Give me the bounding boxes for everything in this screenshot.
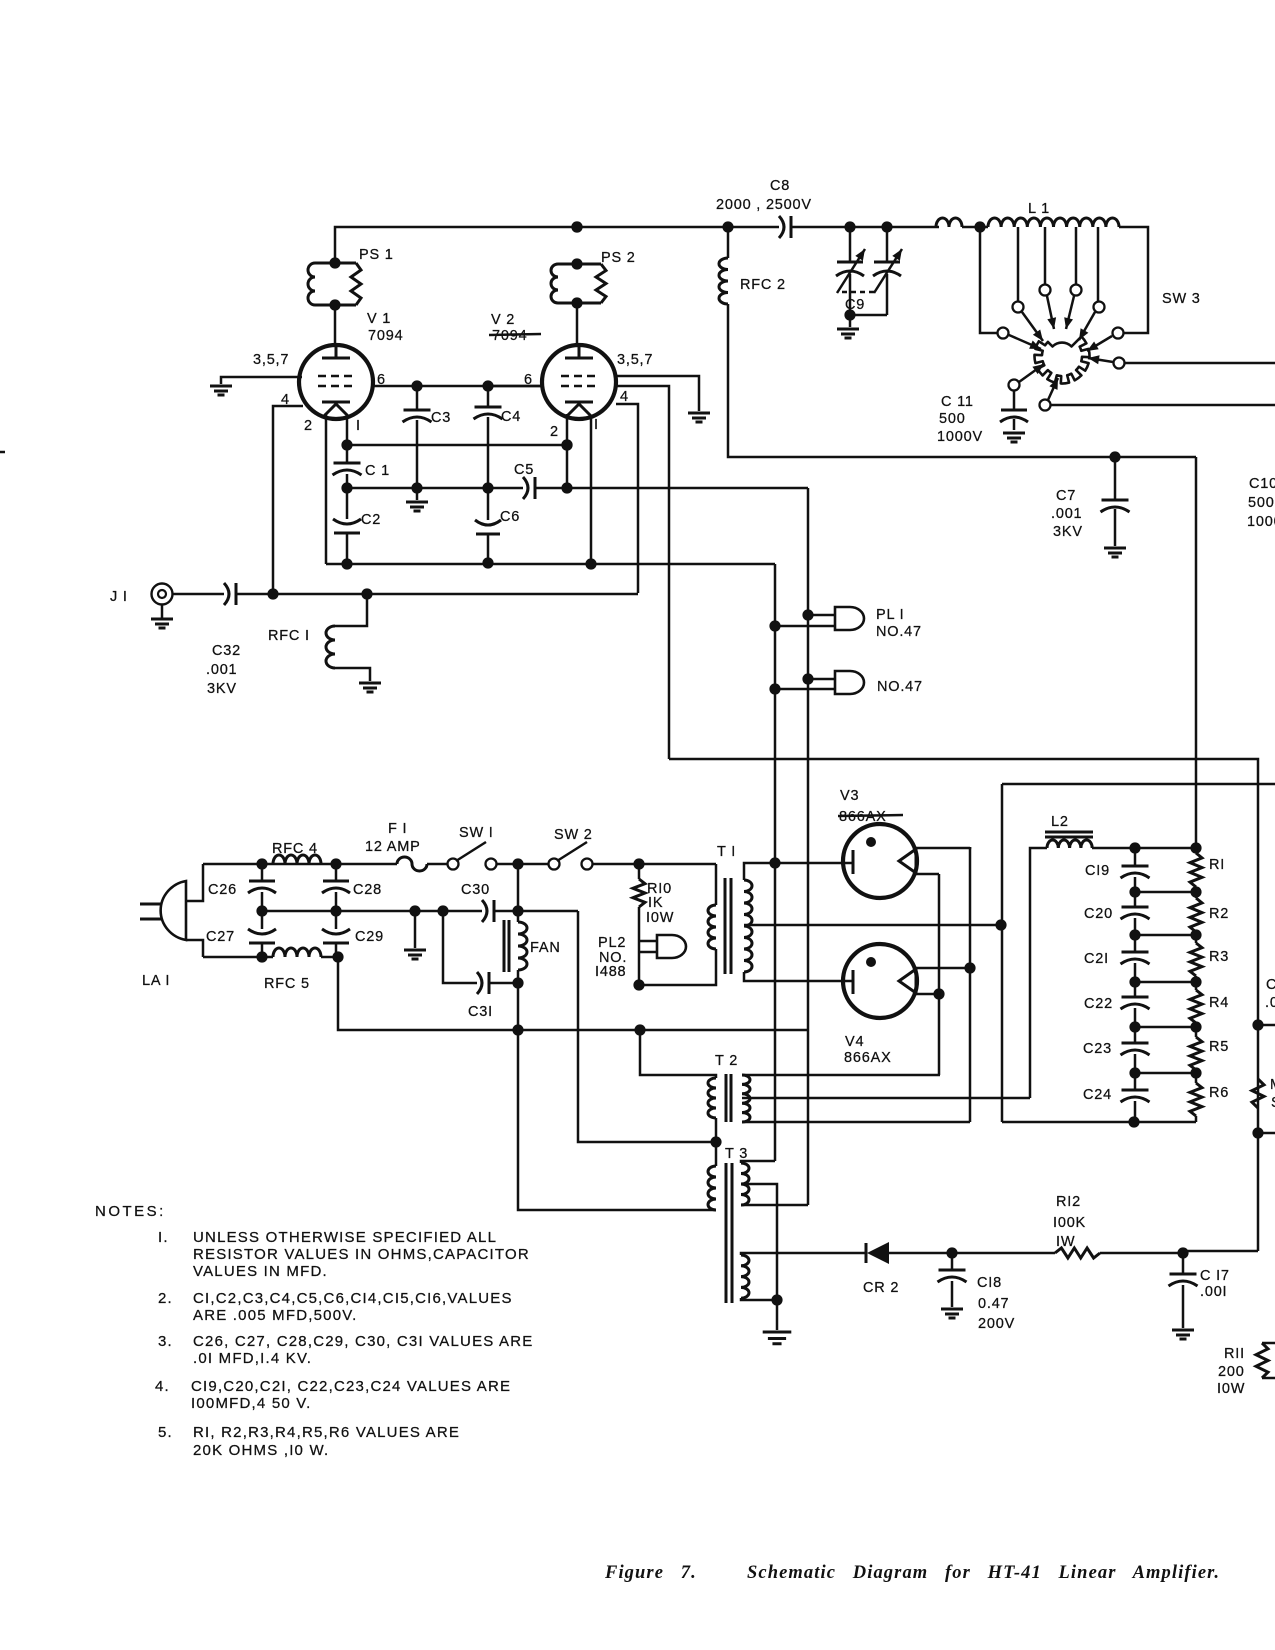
svg-text:3,5,7: 3,5,7 bbox=[253, 352, 289, 368]
svg-text:200: 200 bbox=[1218, 1364, 1245, 1380]
svg-text:I0W: I0W bbox=[1217, 1381, 1245, 1397]
wire filter rail top bbox=[1092, 847, 1196, 850]
wire V1 grid 3,5,7 to ground bbox=[221, 377, 302, 384]
wire V2 grid 3,5,7 to ground bbox=[616, 376, 699, 411]
tube V1 7094 bbox=[299, 345, 373, 419]
svg-text:C: C bbox=[1266, 977, 1275, 993]
svg-text:F I: F I bbox=[388, 821, 407, 837]
svg-text:4: 4 bbox=[620, 389, 629, 405]
resistor R10 bbox=[638, 864, 641, 985]
choke RFC1 bbox=[335, 594, 367, 626]
capacitor C32 bbox=[224, 583, 229, 605]
capacitor CI9 bbox=[1134, 848, 1137, 892]
svg-text:M: M bbox=[1270, 1077, 1275, 1093]
wire T1 secondary bottom to V4 filament bbox=[744, 972, 852, 981]
svg-text:UNLESS OTHERWISE SPECIFIED ALL: UNLESS OTHERWISE SPECIFIED ALL bbox=[193, 1229, 497, 1246]
wire CR2 to R12 line bbox=[889, 1252, 1183, 1255]
transformer T1 bbox=[708, 905, 716, 949]
svg-text:SW 2: SW 2 bbox=[554, 827, 593, 843]
wire grid bias bus (x=808) bbox=[807, 488, 810, 1205]
wire T3 sec2 bottom bbox=[741, 1298, 777, 1300]
svg-text:RI2: RI2 bbox=[1056, 1194, 1081, 1210]
capacitor C11 bbox=[1013, 390, 1016, 430]
svg-text:C 1: C 1 bbox=[365, 463, 390, 479]
svg-text:5.: 5. bbox=[158, 1424, 173, 1441]
svg-text:T I: T I bbox=[717, 844, 736, 860]
capacitor C24 bbox=[1134, 1073, 1137, 1122]
svg-text:RII: RII bbox=[1224, 1346, 1245, 1362]
svg-text:3KV: 3KV bbox=[1053, 524, 1083, 540]
svg-text:.001: .001 bbox=[206, 662, 237, 678]
svg-text:L2: L2 bbox=[1051, 814, 1069, 830]
svg-text:R4: R4 bbox=[1209, 995, 1229, 1011]
wire AC hot rail bbox=[203, 863, 716, 866]
wire PS2 to V2 plate bbox=[576, 303, 579, 346]
connector J1 bbox=[152, 584, 173, 605]
choke RFC4 bbox=[273, 855, 321, 864]
wire V2 pin 1 bbox=[590, 415, 593, 564]
svg-text:C10: C10 bbox=[1249, 476, 1275, 492]
svg-text:CI9,C20,C2I, C22,C23,C24 VALUE: CI9,C20,C2I, C22,C23,C24 VALUES ARE bbox=[191, 1378, 511, 1395]
switch SW2 bbox=[549, 859, 560, 870]
wire V1 pin 2 bbox=[325, 413, 328, 564]
svg-text:IW: IW bbox=[1056, 1234, 1075, 1250]
parasitic suppressor PS2 bbox=[571, 221, 582, 232]
wire rectifier bus A (x=939) bbox=[938, 874, 941, 1075]
resistor R11 (clipped at edge) bbox=[1262, 1343, 1275, 1378]
inductor L1 bbox=[936, 218, 962, 227]
svg-text:C26: C26 bbox=[208, 882, 237, 898]
wire J1 input line bbox=[236, 593, 638, 596]
ground (line filter) bbox=[414, 911, 417, 948]
wire T3 sec1 top bbox=[741, 1161, 775, 1163]
wire T3 sec1 middle tap bbox=[741, 1184, 777, 1300]
SW3 contact: tap 1 bbox=[1013, 302, 1024, 313]
svg-text:2: 2 bbox=[550, 424, 559, 440]
diode CR2 bbox=[865, 1243, 868, 1263]
svg-text:RI: RI bbox=[1209, 857, 1225, 873]
transformer T3 bbox=[715, 1142, 718, 1166]
wire screen feed right side bbox=[1195, 457, 1198, 847]
wire SW3 output to right edge (upper) bbox=[1124, 362, 1275, 365]
wire cathode line (y=564) bbox=[326, 563, 775, 566]
svg-text:ARE .005 MFD,500V.: ARE .005 MFD,500V. bbox=[193, 1307, 357, 1324]
capacitor C31 bbox=[443, 911, 477, 983]
svg-text:500: 500 bbox=[1248, 495, 1275, 511]
svg-text:CI8: CI8 bbox=[977, 1275, 1002, 1291]
svg-text:0.47: 0.47 bbox=[978, 1296, 1009, 1312]
resistor R12 bbox=[1055, 1248, 1100, 1258]
wire V4 plate lower bbox=[916, 993, 939, 996]
svg-text:4.: 4. bbox=[155, 1378, 170, 1395]
capacitor C18 bbox=[951, 1253, 954, 1307]
svg-text:C3I: C3I bbox=[468, 1004, 493, 1020]
SW3 contact: L1 right end bbox=[1113, 328, 1124, 339]
svg-text:C 11: C 11 bbox=[941, 394, 974, 410]
svg-text:R2: R2 bbox=[1209, 906, 1229, 922]
svg-text:C20: C20 bbox=[1084, 906, 1113, 922]
capacitor C29 bbox=[335, 911, 338, 957]
svg-text:RFC 4: RFC 4 bbox=[272, 841, 318, 857]
svg-text:I0W: I0W bbox=[646, 910, 674, 926]
capacitor C17 bbox=[1182, 1253, 1185, 1328]
SW3 contact: L1 left end bbox=[998, 328, 1009, 339]
wire plug to line filter bbox=[186, 864, 203, 957]
switch SW1 bbox=[448, 859, 459, 870]
wire V2 pin 4 bbox=[616, 404, 638, 593]
wire T2 primary top bbox=[640, 1030, 716, 1078]
svg-text:S: S bbox=[1271, 1095, 1275, 1111]
svg-text:C23: C23 bbox=[1083, 1041, 1112, 1057]
svg-text:V4: V4 bbox=[845, 1034, 864, 1050]
wire T2 secondary center bbox=[742, 1097, 1030, 1100]
svg-text:C8: C8 bbox=[770, 178, 790, 194]
svg-text:I488: I488 bbox=[595, 964, 626, 980]
svg-text:RFC 2: RFC 2 bbox=[740, 277, 786, 293]
capacitor C6 bbox=[487, 488, 490, 563]
svg-text:C3: C3 bbox=[431, 410, 451, 426]
svg-text:PL I: PL I bbox=[876, 607, 904, 623]
svg-text:C29: C29 bbox=[355, 929, 384, 945]
wire T1 primary top bbox=[715, 864, 718, 905]
svg-text:C9: C9 bbox=[845, 297, 865, 313]
tube V4 866AX bbox=[843, 944, 917, 1018]
svg-text:.0I MFD,I.4 KV.: .0I MFD,I.4 KV. bbox=[193, 1350, 312, 1367]
SW3 contact: tap 4 bbox=[1094, 302, 1105, 313]
resistor R5 bbox=[1195, 1027, 1198, 1073]
wire V2 screen right to bias bus bbox=[616, 386, 669, 759]
svg-text:.00I: .00I bbox=[1200, 1284, 1227, 1300]
SW3 contact: tap 3 bbox=[1071, 285, 1082, 296]
svg-text:PL2: PL2 bbox=[598, 935, 626, 951]
svg-text:T 2: T 2 bbox=[715, 1053, 738, 1069]
wire T1 center tap bbox=[744, 924, 1001, 927]
wire SW2 side feed to T3 bbox=[578, 911, 716, 1142]
svg-text:T 3: T 3 bbox=[725, 1146, 748, 1162]
capacitor C20 bbox=[1134, 892, 1137, 935]
svg-text:500: 500 bbox=[939, 411, 966, 427]
svg-text:7094: 7094 bbox=[368, 328, 403, 344]
svg-text:L 1: L 1 bbox=[1028, 201, 1050, 217]
svg-text:C2: C2 bbox=[361, 512, 381, 528]
ground (V1 grids) bbox=[210, 386, 232, 395]
inductor L2 bbox=[1030, 848, 1047, 1098]
svg-text:C5: C5 bbox=[514, 462, 534, 478]
wire C1/C3 bottom line (y=488) bbox=[347, 487, 808, 490]
capacitor C4 bbox=[487, 386, 490, 488]
wire AC neutral rail bbox=[203, 956, 338, 959]
svg-text:I00MFD,4 50 V.: I00MFD,4 50 V. bbox=[191, 1395, 311, 1412]
svg-text:C27: C27 bbox=[206, 929, 235, 945]
svg-text:LA I: LA I bbox=[142, 973, 170, 989]
wire screen bias line (y=759) bbox=[669, 759, 1258, 1251]
svg-text:.0: .0 bbox=[1265, 995, 1275, 1011]
svg-text:C22: C22 bbox=[1084, 996, 1113, 1012]
tube V3 866AX bbox=[843, 824, 917, 898]
svg-text:V3: V3 bbox=[840, 788, 859, 804]
svg-text:C30: C30 bbox=[461, 882, 490, 898]
wire AC mid rail bbox=[262, 910, 578, 913]
capacitor C2 bbox=[346, 488, 349, 564]
svg-text:SW I: SW I bbox=[459, 825, 494, 841]
wire filter rail bottom bbox=[1002, 1121, 1196, 1124]
capacitor C23 bbox=[1134, 1027, 1137, 1073]
wire screen divider bottom bbox=[1183, 1250, 1258, 1253]
capacitor C9 (split-stator trimmer) bbox=[850, 227, 887, 315]
svg-text:Figure 7. Schematic Diagram: Figure 7. Schematic Diagram for HT-41 Li… bbox=[604, 1563, 1220, 1583]
resistor R3 bbox=[1195, 935, 1198, 982]
wire SW3 output to right edge (lower) bbox=[1050, 404, 1275, 407]
svg-text:V 2: V 2 bbox=[491, 312, 515, 328]
svg-text:1000V: 1000V bbox=[937, 429, 983, 445]
fuse F1 bbox=[397, 857, 427, 871]
svg-text:1000: 1000 bbox=[1247, 514, 1275, 530]
wire T2 secondary bottom bbox=[742, 1121, 970, 1124]
lamp (second pilot) NO.47 bbox=[775, 679, 835, 689]
parasitic suppressor PS1 bbox=[329, 257, 340, 268]
wire V2 pin 2 bbox=[566, 414, 569, 488]
choke RFC5 bbox=[273, 948, 321, 957]
svg-text:C4: C4 bbox=[501, 409, 521, 425]
svg-text:RESISTOR VALUES IN OHMS,CAPACI: RESISTOR VALUES IN OHMS,CAPACITOR bbox=[193, 1246, 530, 1263]
wire filter rung y=1027 bbox=[1135, 1026, 1196, 1029]
wire B+ line (y=784) bbox=[1002, 784, 1275, 1122]
svg-text:PS 1: PS 1 bbox=[359, 247, 394, 263]
wire V3 plate lower bbox=[916, 873, 939, 876]
L1 tap wires to SW3 bbox=[980, 227, 997, 333]
resistor R2 bbox=[1195, 892, 1198, 935]
svg-text:3.: 3. bbox=[158, 1333, 173, 1350]
svg-text:20K OHMS ,I0 W.: 20K OHMS ,I0 W. bbox=[193, 1442, 329, 1459]
wire cathode cross-connect (y=445) bbox=[347, 444, 567, 447]
plug LA1 bbox=[161, 881, 186, 940]
svg-text:PS 2: PS 2 bbox=[601, 250, 636, 266]
meter shunt resistor (clipped) bbox=[1258, 1025, 1275, 1133]
capacitor C2I bbox=[1134, 935, 1137, 982]
wire filter rung y=892 bbox=[1135, 891, 1196, 894]
svg-text:FAN: FAN bbox=[530, 940, 561, 956]
wire V4 plate upper bbox=[916, 967, 970, 970]
svg-text:C32: C32 bbox=[212, 643, 241, 659]
svg-text:C24: C24 bbox=[1083, 1087, 1112, 1103]
wire filter rung y=1073 bbox=[1135, 1072, 1196, 1075]
lamp PL2 bbox=[639, 941, 657, 952]
resistor R6 bbox=[1195, 1073, 1198, 1122]
svg-text:V 1: V 1 bbox=[367, 311, 391, 327]
svg-text:NOTES:: NOTES: bbox=[95, 1203, 166, 1220]
svg-text:C7: C7 bbox=[1056, 488, 1076, 504]
wire T2 secondary top bbox=[742, 1074, 940, 1077]
wire plate supply top bus bbox=[335, 227, 939, 263]
svg-text:866AX: 866AX bbox=[844, 1050, 892, 1066]
svg-text:.001: .001 bbox=[1051, 506, 1082, 522]
svg-text:IK: IK bbox=[648, 895, 663, 911]
SW3 contact: to C11 bbox=[1009, 380, 1020, 391]
wire V3 plate upper bbox=[916, 847, 970, 848]
svg-text:CI9: CI9 bbox=[1085, 863, 1110, 879]
capacitor C5 bbox=[523, 477, 528, 499]
capacitor C22 bbox=[1134, 982, 1137, 1027]
svg-text:2000 , 2500V: 2000 , 2500V bbox=[716, 197, 812, 213]
svg-text:2: 2 bbox=[304, 418, 313, 434]
svg-text:C28: C28 bbox=[353, 882, 382, 898]
wire filter rung y=982 bbox=[1135, 981, 1196, 984]
SW3 contact: output lower bbox=[1040, 400, 1051, 411]
svg-text:12 AMP: 12 AMP bbox=[365, 839, 421, 855]
capacitor C3 bbox=[416, 386, 419, 500]
junction dots on plate bus bbox=[571, 221, 582, 232]
svg-text:3KV: 3KV bbox=[207, 681, 237, 697]
svg-text:SW 3: SW 3 bbox=[1162, 291, 1201, 307]
junction dot T1 center tap bbox=[995, 919, 1006, 930]
tube V2 7094 bbox=[542, 345, 616, 419]
wire T1 secondary top to V3 filament bbox=[744, 863, 852, 880]
svg-text:3,5,7: 3,5,7 bbox=[617, 352, 653, 368]
capacitor C26 bbox=[261, 864, 264, 911]
svg-text:C6: C6 bbox=[500, 509, 520, 525]
svg-text:R3: R3 bbox=[1209, 949, 1229, 965]
lamp PL1 bbox=[775, 615, 835, 626]
SW3 contact: output upper bbox=[1114, 358, 1125, 369]
SW3 contact: tap 2 bbox=[1040, 285, 1051, 296]
transformer T2 bbox=[708, 1078, 716, 1118]
capacitor C30 bbox=[482, 900, 487, 922]
wire neutral to T3 primary bottom bbox=[518, 1030, 716, 1210]
capacitor C28 bbox=[335, 864, 338, 911]
capacitor C7 bbox=[1114, 457, 1117, 546]
ground (T3 secondary) bbox=[776, 1300, 779, 1330]
junction dots on pin6 line bbox=[411, 380, 422, 391]
wire V2 screen pin 6 left bbox=[488, 385, 543, 388]
svg-text:CR 2: CR 2 bbox=[863, 1280, 899, 1296]
svg-text:NO.47: NO.47 bbox=[876, 624, 922, 640]
junction dot T3 primary top bbox=[710, 1136, 721, 1147]
svg-text:J I: J I bbox=[110, 589, 128, 605]
ground (V2 grids) bbox=[688, 413, 710, 422]
wire V1 screen pin 6 bbox=[372, 385, 542, 388]
svg-text:I: I bbox=[594, 417, 599, 433]
choke RFC2 bbox=[727, 227, 730, 258]
wire V1 pin 4 bbox=[273, 406, 303, 593]
wire rectifier bus B (x=970) bbox=[969, 847, 972, 1122]
svg-text:I.: I. bbox=[158, 1229, 169, 1246]
svg-text:VALUES IN MFD.: VALUES IN MFD. bbox=[193, 1263, 328, 1280]
rotary switch SW3 rotor bbox=[1034, 337, 1089, 384]
left edge tick bbox=[0, 451, 5, 454]
wire V1 pin 1 bbox=[346, 418, 349, 445]
svg-text:CI,C2,C3,C4,C5,C6,CI4,CI5,CI6,: CI,C2,C3,C4,C5,C6,CI4,CI5,CI6,VALUES bbox=[193, 1290, 513, 1307]
wire T3 sec1 bottom jog bbox=[741, 1204, 808, 1207]
wire filter rung y=935 bbox=[1135, 934, 1196, 937]
capacitor C1 bbox=[346, 445, 349, 488]
junction dot C7 tap bbox=[1109, 451, 1120, 462]
capacitor C8 bbox=[779, 216, 784, 238]
capacitor C27 bbox=[261, 911, 264, 957]
wire PS1 to V1 plate bbox=[334, 305, 337, 347]
resistor R4 bbox=[1195, 982, 1198, 1027]
wire R10 bottom to T1 primary bbox=[639, 949, 716, 985]
svg-text:RI, R2,R3,R4,R5,R6 VALUES ARE: RI, R2,R3,R4,R5,R6 VALUES ARE bbox=[193, 1424, 460, 1441]
svg-text:R5: R5 bbox=[1209, 1039, 1229, 1055]
wire cathode bus (x=775) bbox=[774, 564, 777, 1161]
svg-text:NO.47: NO.47 bbox=[877, 679, 923, 695]
wire J1 to C32 bbox=[172, 593, 224, 596]
svg-text:R6: R6 bbox=[1209, 1085, 1229, 1101]
fan motor FAN bbox=[517, 864, 520, 1030]
wire T3 sec2 top to CR2 bbox=[741, 1253, 866, 1255]
svg-text:I00K: I00K bbox=[1053, 1215, 1086, 1231]
svg-text:C26, C27, C28,C29, C30, C3I VA: C26, C27, C28,C29, C30, C3I VALUES ARE bbox=[193, 1333, 533, 1350]
svg-text:C I7: C I7 bbox=[1200, 1268, 1230, 1284]
svg-text:2.: 2. bbox=[158, 1290, 173, 1307]
resistor RI bbox=[1195, 848, 1198, 892]
svg-text:C2I: C2I bbox=[1084, 951, 1109, 967]
svg-text:I: I bbox=[356, 418, 361, 434]
svg-text:200V: 200V bbox=[978, 1316, 1015, 1332]
wire neutral down-right rail bbox=[338, 957, 808, 1030]
svg-text:RFC 5: RFC 5 bbox=[264, 976, 310, 992]
svg-text:RFC I: RFC I bbox=[268, 628, 310, 644]
